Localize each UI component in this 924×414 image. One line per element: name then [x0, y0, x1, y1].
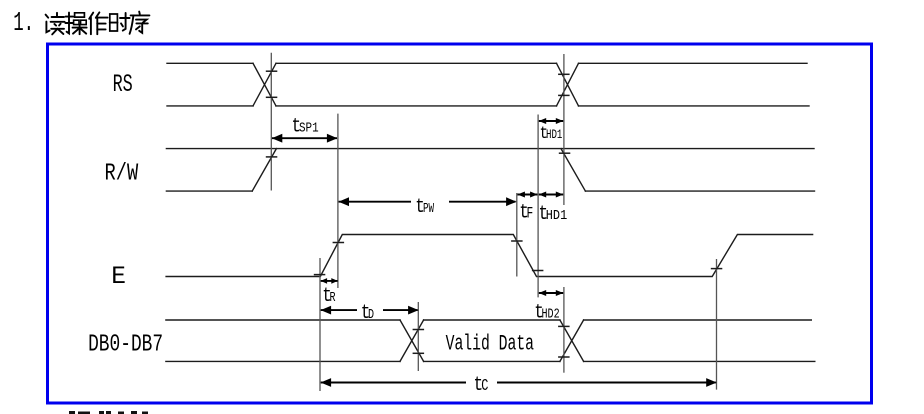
tick RS X2 upper: [558, 73, 570, 75]
svg-text:PW: PW: [423, 200, 435, 217]
title glyph 作: [89, 12, 107, 34]
svg-text:Valid Data: Valid Data: [446, 331, 534, 357]
tick E rise 1 foot: [314, 274, 326, 276]
measure line V2 at R/W setup end: [337, 114, 339, 288]
blue frame border: [48, 44, 872, 403]
svg-text:1.: 1.: [13, 7, 34, 38]
svg-text:RS: RS: [113, 71, 133, 99]
measure line V4 at DB valid start: [417, 302, 419, 371]
arrow tHD1 lower: [539, 192, 564, 198]
tick RS X1 upper: [266, 70, 278, 72]
title glyph 序: [130, 12, 150, 34]
arrow tHD2: [539, 290, 564, 296]
tick DB X1 lower: [413, 352, 425, 354]
svg-text:F: F: [527, 206, 534, 223]
tick DB X2 lower: [558, 356, 570, 358]
signal DB0-DB7 top rail: [166, 319, 811, 321]
partial next title cut at bottom: [69, 411, 148, 414]
tick E rise 2: [711, 268, 723, 270]
measure line V3 at E rise start: [319, 258, 321, 391]
svg-text:HD1: HD1: [546, 207, 568, 223]
arrow tD: [321, 306, 419, 315]
signal R/W falling edge: [561, 149, 585, 192]
svg-text:E: E: [111, 263, 126, 291]
svg-text:R: R: [330, 289, 336, 305]
arrow tR: [321, 278, 338, 284]
measure line V7 upper at RS transition 2: [563, 54, 565, 205]
arrow tC: [321, 378, 717, 387]
svg-text:C: C: [481, 378, 488, 396]
measure line V7 lower at DB hold end: [563, 287, 565, 373]
tick E fall foot: [532, 270, 544, 272]
signal RS waveform bottom rail: [167, 105, 809, 107]
svg-text:D: D: [368, 306, 374, 322]
tick DB X2 upper: [558, 325, 570, 327]
signal R/W high rail: [166, 148, 814, 150]
measure line V5 at E fall start: [516, 193, 518, 277]
arrow tHD1 upper: [539, 118, 564, 124]
arrow tSP1: [272, 134, 338, 143]
tick E fall top: [511, 240, 522, 242]
DB crossover 1: [400, 320, 424, 361]
signal R/W low rail left: [166, 190, 252, 192]
title glyph 时: [110, 13, 130, 31]
svg-text:R/W: R/W: [105, 161, 139, 188]
svg-text:SP1: SP1: [299, 120, 319, 136]
svg-text:HD1: HD1: [546, 129, 563, 143]
tick E rise 1 top: [333, 242, 345, 244]
tick RS X1 lower: [266, 96, 278, 98]
tick DB X1 upper: [413, 329, 425, 331]
tick R/W falling edge: [559, 152, 571, 154]
measure line V6 at E low reach: [537, 115, 539, 298]
signal DB0-DB7 bottom rail: [166, 360, 815, 362]
svg-text:DB0-DB7: DB0-DB7: [88, 331, 163, 358]
signal RS waveform top rail: [167, 62, 807, 64]
arrow tPW: [339, 197, 517, 206]
svg-text:HD2: HD2: [542, 306, 560, 322]
title glyph 操: [65, 13, 86, 35]
signal R/W rising edge: [252, 149, 276, 192]
signal E waveform: [166, 235, 813, 277]
signal R/W low rail right: [585, 190, 814, 192]
measure line V8 at E rise 2: [716, 259, 718, 390]
tick R/W rising edge: [266, 156, 278, 158]
RS crossover 1: [253, 63, 276, 106]
title glyph 读: [46, 13, 65, 35]
measure line V1 at RS transition 1: [270, 53, 272, 191]
arrow tF: [517, 192, 537, 198]
DB crossover 2: [560, 320, 584, 361]
RS crossover 2: [557, 63, 579, 106]
tick RS X2 lower: [558, 94, 570, 96]
